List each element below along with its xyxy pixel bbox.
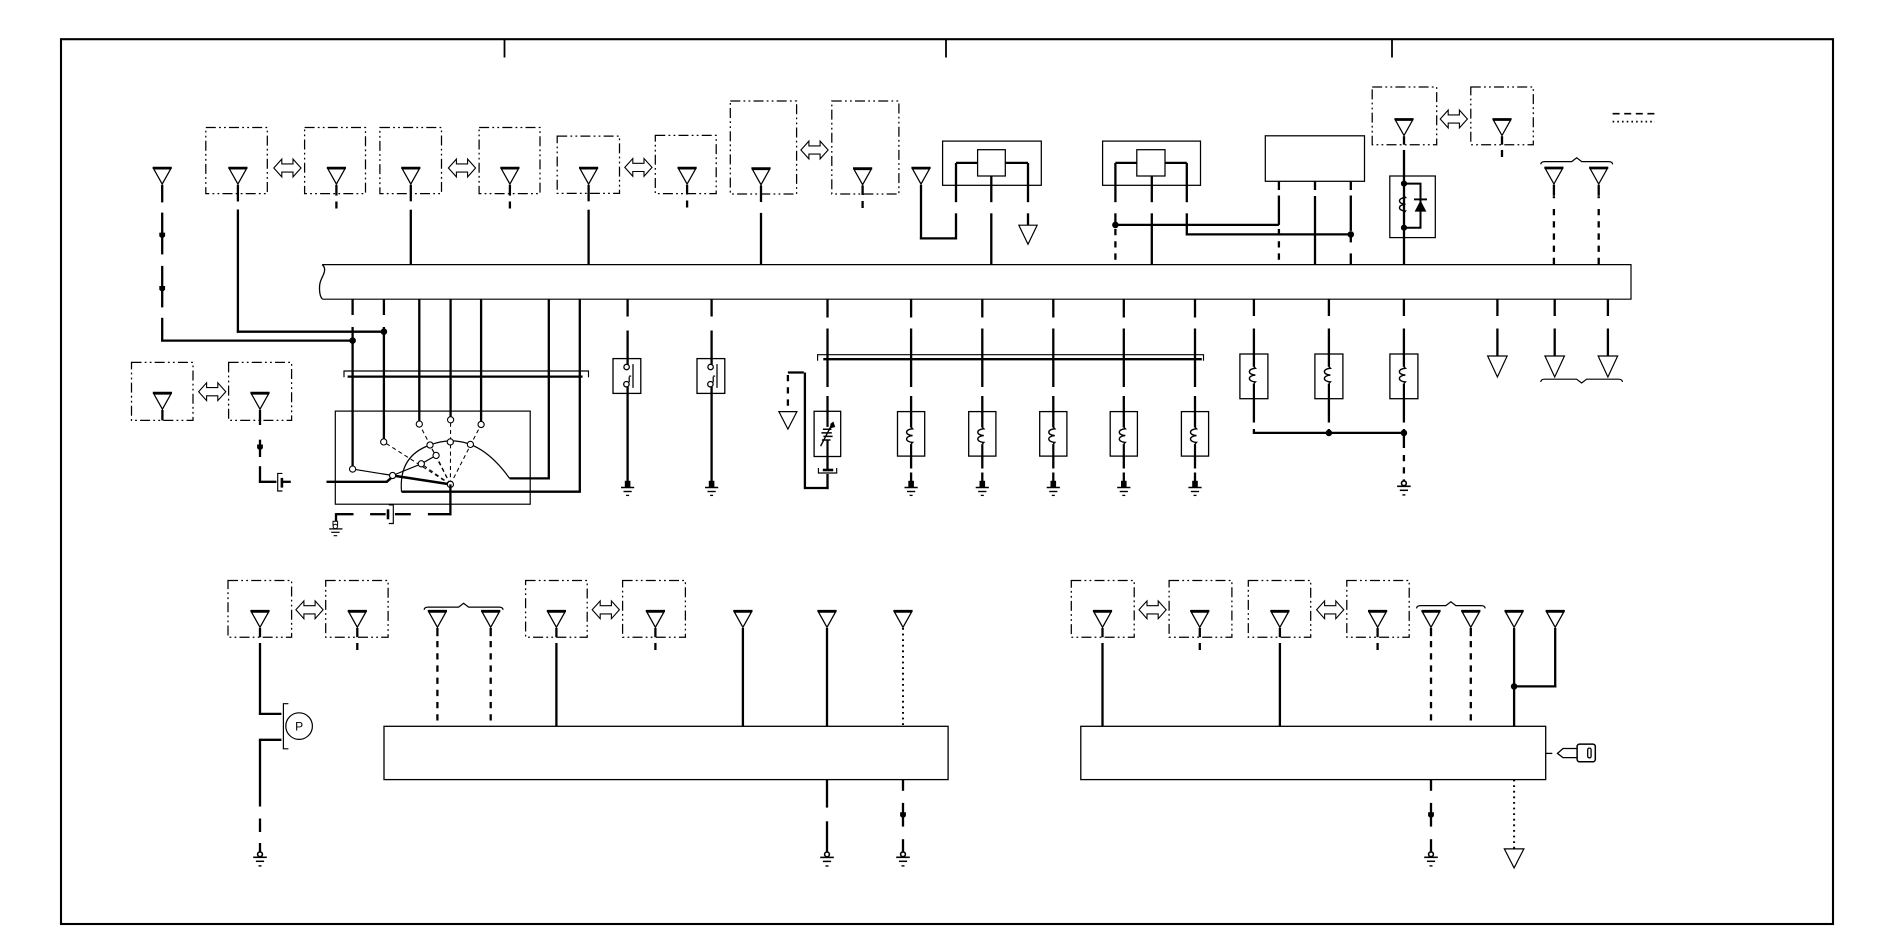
wire switch feed f2 xyxy=(383,299,385,442)
injector coil U9 xyxy=(1110,412,1137,457)
wire sender return loop xyxy=(788,373,829,490)
connector C24 xyxy=(250,393,269,409)
border tick 2 xyxy=(945,39,947,58)
wire switch feed f3 xyxy=(418,299,420,421)
wire M2 ground dashed xyxy=(1430,780,1432,852)
wire net U2-U3 lower xyxy=(1187,233,1351,235)
fuel sender U5 xyxy=(814,411,841,456)
wire U12 below xyxy=(1328,399,1330,434)
wire arrow a4 xyxy=(900,812,906,818)
wire M1 ground 2 dashed xyxy=(902,780,904,852)
wire T2 dashed to bus xyxy=(1553,185,1555,265)
wire T8 joins T7 xyxy=(1513,628,1556,688)
wire S2 to ground xyxy=(626,387,628,481)
connector housing H17 xyxy=(1248,581,1310,638)
ground G13 xyxy=(705,481,718,496)
fan switch S1 xyxy=(335,411,530,504)
connector C12 xyxy=(348,611,367,627)
connector C14 xyxy=(481,611,500,627)
mating arrow A7 xyxy=(592,601,619,619)
connector C6 xyxy=(678,168,697,184)
wire C16 stub xyxy=(654,628,656,650)
wire U13 below xyxy=(1403,399,1405,434)
ground G6 xyxy=(1188,481,1201,496)
junction dot n5 xyxy=(1326,430,1332,436)
connector C16 xyxy=(646,611,665,627)
ground G12 xyxy=(621,481,634,496)
wire C7 to bus xyxy=(760,185,762,264)
wire flasher feed h1 xyxy=(1253,299,1255,355)
wire arc feed f7 xyxy=(579,299,581,492)
ground G8 xyxy=(253,852,267,866)
wire coil U7 to ground xyxy=(981,456,983,481)
wire coil U6 to ground xyxy=(910,456,912,481)
switch contacts xyxy=(350,417,485,488)
wire out k3 xyxy=(1607,299,1609,356)
connector T7 xyxy=(1505,611,1524,627)
ground G10 xyxy=(896,852,910,866)
connector C11b xyxy=(250,611,269,627)
flasher coil U12 xyxy=(1315,354,1343,399)
connector housing H11 xyxy=(228,581,292,638)
wire sensor to ground xyxy=(259,740,282,852)
relay U2 xyxy=(1103,141,1201,185)
connector T5 xyxy=(817,611,836,627)
connector C8 xyxy=(853,168,872,184)
wire C9 to bus xyxy=(1403,136,1405,265)
wire T0 to node xyxy=(161,339,353,341)
mating arrow A1 xyxy=(274,159,301,177)
ground G9 xyxy=(820,852,834,866)
wire sender feed g4 xyxy=(1052,299,1054,412)
wire flasher common xyxy=(1254,432,1404,434)
wire arc left link xyxy=(402,491,581,493)
wire switch unit feed s2 xyxy=(710,299,712,364)
connector housing H13 xyxy=(526,581,588,638)
wire arc right link xyxy=(510,477,550,479)
off-page arrow D2 xyxy=(779,412,797,430)
wire T5 to ECU1 xyxy=(826,628,828,726)
wire U3 pin3 dashed xyxy=(1350,181,1352,264)
group brace B2 xyxy=(1417,602,1486,609)
connector housing H2 xyxy=(305,128,366,194)
ground G5 xyxy=(1117,481,1130,496)
connector housing H7 xyxy=(730,101,796,194)
connector T1 xyxy=(911,168,930,184)
wire C3 to bus xyxy=(410,185,412,265)
connector C7 xyxy=(751,168,770,184)
mating arrow A4 xyxy=(801,141,828,159)
connector C15 xyxy=(547,611,566,627)
connector housing H12 xyxy=(326,581,388,638)
switch link c8-c11 xyxy=(353,469,393,475)
switch arc left xyxy=(401,445,430,492)
wire flasher feed h2 xyxy=(1328,299,1330,355)
injector coil U7 xyxy=(969,412,996,457)
wire K2 to ground xyxy=(336,513,354,521)
junction dot n1 xyxy=(350,338,356,344)
inline connector K1 xyxy=(278,473,291,491)
off-page arrow D4 xyxy=(1545,356,1565,377)
connector T6 xyxy=(893,611,912,627)
wire arrow a5 xyxy=(1428,812,1434,818)
connector housing H18 xyxy=(1347,581,1409,638)
wire coil U10 to ground xyxy=(1194,456,1196,481)
inline connector K3 xyxy=(818,456,836,489)
wire T7 to ECU2 xyxy=(1513,628,1515,726)
switch wiper xyxy=(387,476,451,485)
connector T3 xyxy=(1589,168,1608,184)
wire net U2-U3 upper xyxy=(1115,224,1279,226)
legend dashed sample xyxy=(1613,113,1656,115)
wire U1 pin1 stub xyxy=(955,185,957,202)
legend dotted sample xyxy=(1613,121,1655,123)
connector housing H20 xyxy=(229,362,292,420)
wire C24 dashed drop xyxy=(259,410,277,483)
wire C12 stub xyxy=(356,628,358,650)
ground G2 xyxy=(905,481,918,496)
ground G1 xyxy=(329,521,342,535)
connector C23 xyxy=(153,393,172,409)
connector housing H19 xyxy=(132,362,194,420)
junction dot n3 xyxy=(1113,222,1119,228)
junction strip J1 xyxy=(344,371,589,377)
connector T2 xyxy=(1544,168,1563,184)
connector housing H4 xyxy=(479,128,540,194)
wire switch feed f4 xyxy=(449,299,451,417)
wire C21 dashed xyxy=(1430,628,1432,726)
ignition key symbol xyxy=(1546,744,1595,762)
mating arrow A9 xyxy=(1317,601,1344,619)
wire out k2 xyxy=(1554,299,1556,356)
wire C2 stub xyxy=(335,185,337,209)
wire sender feed g5 xyxy=(1123,299,1125,412)
wire T4 to ECU1 xyxy=(742,628,744,726)
wire sender feed g1 xyxy=(826,299,828,412)
mating arrow A5 xyxy=(1440,110,1467,128)
wire C22 dashed xyxy=(1470,628,1472,726)
wire U3 pin2 to bus xyxy=(1314,181,1316,264)
module U3 xyxy=(1265,136,1364,182)
ground G11 xyxy=(1424,852,1438,866)
group brace B1 xyxy=(424,603,503,610)
wiring harness bus W1 xyxy=(319,265,1631,300)
ECU module M2 xyxy=(1081,726,1546,779)
connector C3 xyxy=(401,168,420,184)
wire C4 stub xyxy=(509,185,511,209)
wire sender feed g6 xyxy=(1194,299,1196,412)
inline connector K2 xyxy=(370,505,411,524)
connector housing H10 xyxy=(1471,87,1534,145)
wire S3 to ground xyxy=(710,387,712,481)
connector C22 xyxy=(1461,611,1480,627)
junction dot n2 xyxy=(381,329,387,335)
wire switch feed f1 xyxy=(351,299,353,469)
wire C8 stub xyxy=(861,185,863,208)
wire arc feed f6 xyxy=(548,299,550,478)
mating arrow A2 xyxy=(448,159,475,177)
ECU module M1 xyxy=(384,726,948,779)
off-page arrow D5 xyxy=(1598,356,1618,377)
wire C5 to bus xyxy=(587,185,589,265)
injector coil U8 xyxy=(1040,412,1067,457)
wire U3 pin1 dashed xyxy=(1278,181,1280,264)
connector housing H8 xyxy=(832,101,899,194)
wire pivot drop xyxy=(428,484,452,515)
connector T4 xyxy=(733,611,752,627)
connector housing H3 xyxy=(380,128,442,194)
wire sender feed g3 xyxy=(981,299,983,412)
connector housing H16 xyxy=(1169,581,1232,638)
wire C6 stub xyxy=(686,185,688,208)
connector C1 xyxy=(228,168,247,184)
wire arrow a1 xyxy=(159,233,165,239)
pressure sensor P1 xyxy=(283,704,312,749)
wire arrow a2 xyxy=(159,286,165,292)
wire T1 to relay U1 xyxy=(920,185,956,240)
injector coil U10 xyxy=(1181,412,1208,457)
ground G4 xyxy=(1047,481,1060,496)
wire switch input xyxy=(327,481,388,483)
wire U1 pin3 off-page xyxy=(1027,185,1029,225)
connector C10 xyxy=(1492,119,1511,135)
mating arrow A6 xyxy=(296,601,323,619)
connector T0 xyxy=(153,168,172,184)
wire M2 dotted out xyxy=(1513,780,1515,849)
connector C19 xyxy=(1270,611,1289,627)
wire out k1 xyxy=(1496,299,1498,356)
wire C11b to sensor xyxy=(259,628,282,715)
connector C9 xyxy=(1394,119,1413,135)
mating arrow A8 xyxy=(1139,601,1166,619)
wire C20 stub xyxy=(1376,628,1378,650)
wire flasher feed h3 xyxy=(1403,299,1405,355)
wire U2 pin2 to bus xyxy=(1151,185,1153,264)
junction strip J2 xyxy=(818,355,1204,361)
wire C14 dashed xyxy=(490,628,492,726)
switch unit S3 xyxy=(697,359,725,394)
off-page arrow D1 xyxy=(1019,225,1037,244)
wire coil U8 to ground xyxy=(1052,456,1054,481)
wire C17 to ECU2 xyxy=(1101,628,1103,726)
ground G7 xyxy=(1397,481,1411,495)
group brace B3 xyxy=(1541,158,1613,165)
mating arrow A3 xyxy=(625,159,652,177)
svg-text:P: P xyxy=(295,720,303,734)
connector C13 xyxy=(428,611,447,627)
wire U11 below xyxy=(1253,399,1255,434)
wire C10 stub xyxy=(1501,136,1503,157)
connector C21 xyxy=(1421,611,1440,627)
connector housing H14 xyxy=(623,581,686,638)
wire C23 stub xyxy=(161,410,163,421)
wire C18 stub xyxy=(1199,628,1201,650)
mating arrow A10 xyxy=(199,383,226,401)
junction dot n4 xyxy=(1348,232,1354,238)
connector C2 xyxy=(327,168,346,184)
wire switch feed f5 xyxy=(480,299,482,421)
injector coil U6 xyxy=(898,412,925,457)
wire M1 ground 1 xyxy=(826,780,828,853)
wire coil U9 to ground xyxy=(1123,456,1125,481)
junction dot n7 xyxy=(1511,684,1517,690)
group brace B4 xyxy=(1541,379,1623,383)
connector housing H6 xyxy=(655,135,716,193)
connector housing H9 xyxy=(1372,87,1437,145)
connector C4 xyxy=(500,168,519,184)
wire arrow a3 xyxy=(257,445,263,451)
off-page arrow D6 xyxy=(1504,849,1524,868)
flasher coil U11 xyxy=(1240,354,1268,399)
connector housing H15 xyxy=(1071,581,1134,638)
wire U2 pin1 dashed xyxy=(1114,185,1116,264)
wire T6 dotted xyxy=(902,628,904,726)
wire C15 to ECU1 xyxy=(555,628,557,726)
connector T8 xyxy=(1546,611,1565,627)
wire C19 to ECU2 xyxy=(1279,628,1281,726)
border tick 3 xyxy=(1391,39,1393,58)
relay U1 xyxy=(943,141,1042,185)
junction dot n6 xyxy=(1401,430,1407,436)
wire C13 dashed xyxy=(436,628,438,726)
connector C17 xyxy=(1093,611,1112,627)
connector housing H1 xyxy=(206,128,267,194)
switch wiper rays xyxy=(384,420,481,485)
relay-diode unit U4 xyxy=(1390,176,1436,238)
switch link c11-c10-c9 xyxy=(393,455,437,475)
switch arc right xyxy=(430,441,510,479)
wire flasher ground drop xyxy=(1403,433,1405,481)
wire U1 pin2 to bus xyxy=(990,185,992,264)
border tick 1 xyxy=(504,39,506,58)
off-page arrow D3 xyxy=(1488,356,1508,377)
wire T3 dashed to bus xyxy=(1598,185,1600,265)
connector housing H5 xyxy=(557,136,619,193)
wire sender feed g2 xyxy=(910,299,912,412)
connector C20 xyxy=(1368,611,1387,627)
wire C1 drop xyxy=(237,185,384,333)
flasher coil U13 xyxy=(1390,354,1418,399)
wire T0 dashed drop xyxy=(161,185,163,342)
connector C18 xyxy=(1190,611,1209,627)
switch unit S2 xyxy=(613,359,641,394)
wire U2 pin3 xyxy=(1186,185,1188,235)
wire switch unit feed s1 xyxy=(626,299,628,364)
connector C5 xyxy=(579,168,598,184)
ground G3 xyxy=(976,481,989,496)
